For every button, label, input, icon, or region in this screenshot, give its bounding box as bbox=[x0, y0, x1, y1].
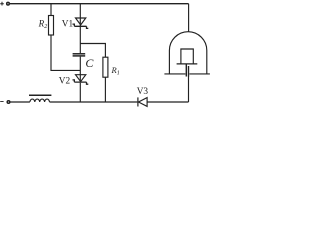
wire R2 branch top bbox=[50, 4, 52, 16]
svg-text:V2: V2 bbox=[59, 77, 71, 87]
wire rail right up to magnetron filament bbox=[147, 101, 188, 103]
svg-text:R2: R2 bbox=[38, 19, 49, 30]
resistor R1 bbox=[103, 57, 108, 77]
zener diode V2 bbox=[73, 75, 89, 85]
magnetron antenna wire bbox=[188, 4, 190, 32]
magnetron anode block bbox=[177, 49, 198, 64]
zener diode V1 bbox=[73, 18, 89, 28]
minus terminal bbox=[0, 101, 3, 103]
diode V3 bbox=[138, 97, 147, 106]
filament lead left bbox=[164, 73, 185, 75]
magnetron envelope dome bbox=[169, 32, 206, 74]
svg-text:R1: R1 bbox=[111, 65, 120, 76]
wire R1 bottom to rail bbox=[104, 77, 106, 102]
bottom input terminal node bbox=[7, 101, 10, 104]
wire branch to R1 bbox=[80, 44, 105, 58]
svg-text:V3: V3 bbox=[137, 87, 149, 97]
top input terminal node bbox=[7, 2, 10, 5]
wire rail to V3 bbox=[50, 101, 138, 103]
wire top rail bbox=[10, 3, 189, 5]
wire V1 branch top bbox=[79, 4, 81, 27]
capacitor C bbox=[73, 54, 86, 56]
wire V1 cathode down to capacitor bbox=[79, 27, 81, 53]
svg-text:V1: V1 bbox=[62, 19, 74, 29]
wire V2 to bottom rail bbox=[79, 83, 81, 102]
cathode stub / filament plate left bbox=[185, 64, 187, 77]
svg-text:C: C bbox=[85, 56, 94, 70]
wire C bottom to V2 bbox=[79, 57, 81, 83]
wire R2 bottom to junction bbox=[51, 35, 80, 70]
plus terminal bbox=[0, 2, 4, 6]
resistor R2 bbox=[49, 16, 54, 36]
wire bottom rail left bbox=[10, 101, 30, 103]
filament plate right and down wire bbox=[188, 66, 190, 77]
inductor L bbox=[29, 95, 51, 102]
filament lead right bbox=[189, 73, 210, 75]
